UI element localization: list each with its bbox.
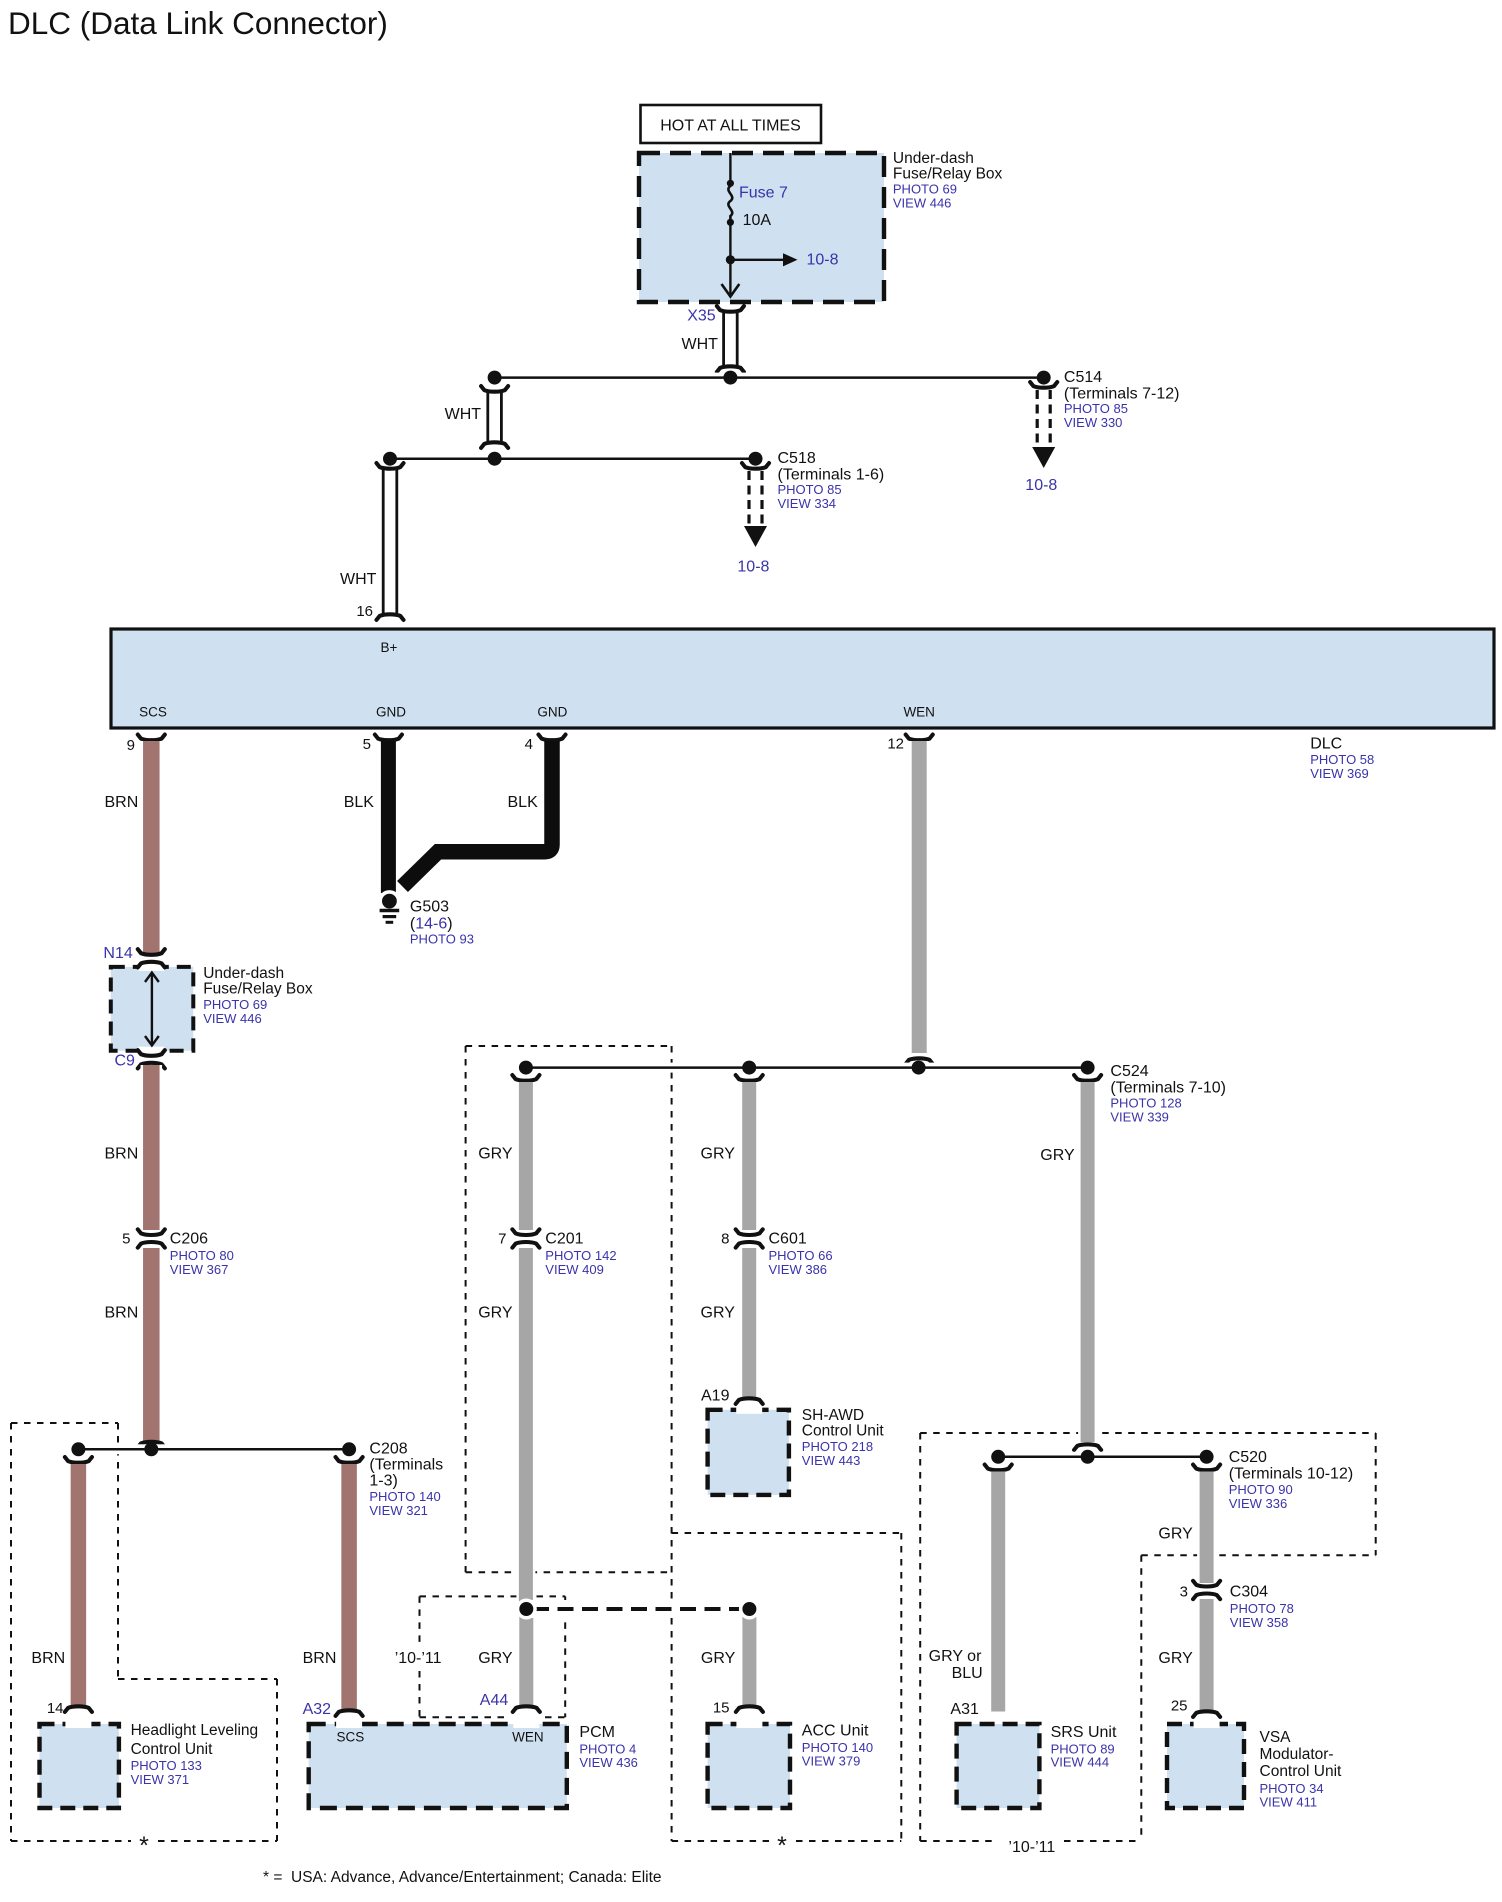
svg-text:GND: GND	[537, 705, 567, 720]
svg-text:Control Unit: Control Unit	[1260, 1763, 1343, 1780]
svg-text:SCS: SCS	[139, 705, 167, 720]
svg-text:7: 7	[498, 1231, 506, 1248]
svg-text:PHOTO 142: PHOTO 142	[545, 1248, 616, 1263]
svg-text:Control Unit: Control Unit	[131, 1741, 214, 1758]
svg-text:PHOTO 69: PHOTO 69	[203, 997, 267, 1012]
svg-text:(Terminals 1-6): (Terminals 1-6)	[778, 467, 885, 484]
svg-text:VIEW 444: VIEW 444	[1051, 1755, 1110, 1770]
svg-text:12: 12	[887, 736, 904, 753]
svg-text:*: *	[777, 1832, 787, 1860]
svg-text:PHOTO 140: PHOTO 140	[369, 1489, 440, 1504]
svg-text:BLK: BLK	[344, 794, 375, 811]
svg-text:WHT: WHT	[445, 406, 482, 423]
svg-text:5: 5	[363, 736, 371, 753]
svg-text:PCM: PCM	[579, 1724, 615, 1741]
svg-text:10-8: 10-8	[807, 252, 839, 269]
svg-text:VSA: VSA	[1260, 1729, 1292, 1746]
svg-text:10A: 10A	[743, 212, 772, 229]
svg-text:(Terminals 7-12): (Terminals 7-12)	[1064, 386, 1180, 403]
svg-text:VIEW 321: VIEW 321	[369, 1503, 428, 1518]
svg-text:8: 8	[721, 1231, 729, 1248]
svg-text:PHOTO 85: PHOTO 85	[778, 482, 842, 497]
svg-text:(14-6): (14-6)	[410, 916, 453, 933]
svg-text:C9: C9	[115, 1053, 136, 1070]
svg-text:WEN: WEN	[903, 705, 935, 720]
svg-text:(Terminals 7-10): (Terminals 7-10)	[1110, 1080, 1226, 1097]
svg-text:PHOTO 66: PHOTO 66	[769, 1248, 833, 1263]
svg-text:GRY: GRY	[1158, 1650, 1193, 1667]
svg-text:BLK: BLK	[508, 794, 539, 811]
svg-text:GRY: GRY	[478, 1650, 513, 1667]
svg-text:A44: A44	[480, 1692, 509, 1709]
svg-text:(Terminals: (Terminals	[369, 1457, 443, 1474]
svg-text:Control Unit: Control Unit	[802, 1423, 885, 1440]
svg-text:Fuse/Relay Box: Fuse/Relay Box	[203, 981, 313, 998]
svg-text:VIEW 334: VIEW 334	[778, 496, 837, 511]
svg-text:VIEW 336: VIEW 336	[1229, 1496, 1288, 1511]
svg-text:PHOTO 90: PHOTO 90	[1229, 1482, 1293, 1497]
svg-text:WHT: WHT	[682, 336, 719, 353]
svg-text:Modulator-: Modulator-	[1260, 1746, 1334, 1763]
svg-text:VIEW 436: VIEW 436	[579, 1755, 638, 1770]
svg-text:X35: X35	[687, 308, 716, 325]
svg-text:DLC: DLC	[1310, 736, 1342, 753]
svg-text:GRY: GRY	[701, 1650, 736, 1667]
svg-text:3: 3	[1180, 1584, 1188, 1601]
svg-text:B+: B+	[381, 640, 398, 655]
svg-text:PHOTO 69: PHOTO 69	[893, 182, 957, 197]
svg-text:A32: A32	[303, 1701, 332, 1718]
svg-text:PHOTO 85: PHOTO 85	[1064, 401, 1128, 416]
svg-text:10-8: 10-8	[1025, 477, 1057, 494]
svg-text:PHOTO 78: PHOTO 78	[1230, 1601, 1294, 1616]
svg-text:9: 9	[127, 737, 135, 754]
svg-text:A19: A19	[701, 1388, 730, 1405]
svg-text:C304: C304	[1230, 1584, 1268, 1601]
svg-text:C208: C208	[369, 1441, 407, 1458]
svg-text:VIEW 339: VIEW 339	[1110, 1110, 1169, 1125]
svg-text:Under-dash: Under-dash	[893, 150, 974, 167]
svg-text:BRN: BRN	[105, 794, 139, 811]
svg-text:GRY: GRY	[1040, 1147, 1075, 1164]
svg-text:WHT: WHT	[340, 571, 377, 588]
svg-text:10-8: 10-8	[737, 559, 769, 576]
svg-text:VIEW 446: VIEW 446	[203, 1011, 262, 1026]
svg-text:VIEW 369: VIEW 369	[1310, 766, 1369, 781]
svg-text:C601: C601	[769, 1231, 807, 1248]
svg-text:VIEW 446: VIEW 446	[893, 196, 952, 211]
svg-text:VIEW 411: VIEW 411	[1260, 1795, 1318, 1810]
svg-text:GRY: GRY	[478, 1305, 513, 1322]
svg-text:16: 16	[356, 603, 373, 620]
svg-text:’10-’11: ’10-’11	[1008, 1839, 1055, 1856]
svg-text:BRN: BRN	[31, 1650, 65, 1667]
svg-text:SRS Unit: SRS Unit	[1051, 1724, 1117, 1741]
svg-text:(Terminals 10-12): (Terminals 10-12)	[1229, 1466, 1353, 1483]
svg-text:25: 25	[1171, 1698, 1188, 1715]
svg-text:GRY: GRY	[478, 1146, 513, 1163]
svg-text:VIEW 330: VIEW 330	[1064, 415, 1123, 430]
svg-text:14: 14	[47, 1700, 64, 1717]
svg-text:SH-AWD: SH-AWD	[802, 1407, 864, 1424]
svg-text:VIEW 371: VIEW 371	[131, 1772, 190, 1787]
svg-text:A31: A31	[950, 1701, 979, 1718]
svg-text:SCS: SCS	[337, 1730, 365, 1745]
svg-text:Fuse 7: Fuse 7	[739, 185, 788, 202]
svg-text:G503: G503	[410, 899, 449, 916]
svg-text:BRN: BRN	[105, 1146, 139, 1163]
svg-text:GND: GND	[376, 705, 406, 720]
svg-text:C518: C518	[778, 450, 816, 467]
svg-text:VIEW 443: VIEW 443	[802, 1453, 861, 1468]
svg-text:PHOTO 93: PHOTO 93	[410, 932, 474, 947]
svg-text:VIEW 386: VIEW 386	[769, 1262, 828, 1277]
svg-text:15: 15	[713, 1700, 730, 1717]
svg-text:PHOTO 58: PHOTO 58	[1310, 752, 1374, 767]
svg-text:WEN: WEN	[512, 1730, 544, 1745]
svg-text:VIEW 379: VIEW 379	[802, 1754, 861, 1769]
svg-text:GRY: GRY	[701, 1305, 736, 1322]
svg-text:C524: C524	[1110, 1063, 1148, 1080]
svg-text:1-3): 1-3)	[369, 1473, 397, 1490]
svg-text:’10-’11: ’10-’11	[395, 1650, 442, 1667]
svg-text:VIEW 358: VIEW 358	[1230, 1615, 1289, 1630]
svg-text:C206: C206	[170, 1231, 208, 1248]
svg-text:GRY or: GRY or	[929, 1648, 982, 1665]
svg-text:C520: C520	[1229, 1449, 1267, 1466]
svg-text:*: *	[139, 1832, 149, 1860]
svg-text:GRY: GRY	[701, 1146, 736, 1163]
svg-text:C514: C514	[1064, 369, 1102, 386]
svg-text:PHOTO 128: PHOTO 128	[1110, 1096, 1181, 1111]
svg-text:GRY: GRY	[1158, 1526, 1193, 1543]
svg-text:C201: C201	[545, 1231, 583, 1248]
svg-text:4: 4	[525, 736, 533, 753]
svg-text:DLC (Data Link Connector): DLC (Data Link Connector)	[8, 5, 388, 41]
svg-text:Fuse/Relay Box: Fuse/Relay Box	[893, 166, 1003, 183]
svg-text:ACC Unit: ACC Unit	[802, 1723, 869, 1740]
svg-text:VIEW 409: VIEW 409	[545, 1262, 604, 1277]
svg-text:BRN: BRN	[303, 1650, 337, 1667]
svg-text:PHOTO 218: PHOTO 218	[802, 1439, 873, 1454]
svg-text:PHOTO 133: PHOTO 133	[131, 1758, 202, 1773]
svg-text:BLU: BLU	[952, 1665, 983, 1682]
svg-text:N14: N14	[103, 945, 132, 962]
svg-text:PHOTO 80: PHOTO 80	[170, 1248, 234, 1263]
svg-text:* = USA: Advance, Advance/Ent: * = USA: Advance, Advance/Entertainment;…	[263, 1869, 662, 1886]
svg-text:5: 5	[122, 1231, 130, 1248]
svg-text:VIEW 367: VIEW 367	[170, 1262, 229, 1277]
svg-text:Under-dash: Under-dash	[203, 965, 284, 982]
svg-text:Headlight Leveling: Headlight Leveling	[131, 1722, 259, 1739]
svg-text:HOT AT ALL TIMES: HOT AT ALL TIMES	[660, 118, 801, 135]
svg-text:BRN: BRN	[105, 1305, 139, 1322]
